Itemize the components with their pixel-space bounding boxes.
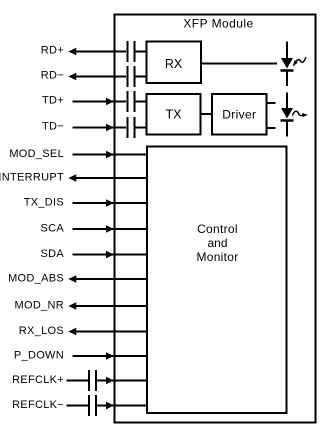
capacitor C2 (RD- AC coupling) — [128, 66, 147, 87]
capacitor C3 (TD+ AC coupling) — [128, 91, 147, 112]
svg-text:REFCLK+: REFCLK+ — [12, 374, 64, 386]
node TX_DIS : input wire with arrow — [24, 197, 147, 209]
svg-text:TD−: TD− — [42, 121, 64, 133]
svg-text:Control: Control — [197, 222, 238, 236]
node P_DOWN : input wire with arrow — [14, 350, 147, 362]
wire TX to Driver — [201, 113, 213, 115]
node TD+ : input wire with arrow — [42, 95, 126, 107]
TX block — [147, 94, 201, 135]
capacitor C1 (RD+ AC coupling) — [128, 41, 147, 62]
Driver block — [212, 94, 267, 135]
laser diode D2 (transmitter) — [281, 93, 294, 137]
Control and Monitor block — [147, 147, 287, 414]
svg-text:TX: TX — [166, 108, 183, 122]
node TD- : input wire with arrow — [42, 121, 126, 133]
photodiode D1 (receiver) — [281, 42, 294, 87]
wire RX output to photodiode — [201, 63, 277, 65]
capacitor C6 (REFCLK- coupling) — [89, 395, 96, 416]
node REFCLK- : input wire — [12, 399, 88, 411]
node RD- : output wire with arrow — [41, 70, 126, 82]
XFP Module enclosure box — [115, 15, 316, 423]
node MOD_ABS : output wire with arrow — [8, 273, 147, 285]
svg-text:REFCLK−: REFCLK− — [12, 399, 64, 411]
optical output arrow (light out of laser) — [293, 111, 308, 117]
svg-text:XFP Module: XFP Module — [183, 17, 253, 31]
optical input arrow (light into photodiode) — [293, 57, 306, 67]
svg-text:SDA: SDA — [40, 248, 64, 260]
node RX_LOS : output wire with arrow — [19, 325, 147, 337]
svg-text:Monitor: Monitor — [196, 250, 238, 264]
wire Driver output stub bottom — [267, 127, 276, 129]
node REFCLK+ : input wire — [12, 374, 88, 386]
svg-text:TX_DIS: TX_DIS — [24, 197, 64, 209]
svg-text:INTERRUPT: INTERRUPT — [0, 172, 64, 184]
svg-text:Driver: Driver — [222, 108, 256, 122]
svg-text:RD+: RD+ — [41, 45, 64, 57]
svg-text:RX_LOS: RX_LOS — [19, 325, 64, 337]
svg-text:RD−: RD− — [41, 70, 64, 82]
svg-text:TD+: TD+ — [42, 95, 64, 107]
svg-text:MOD_NR: MOD_NR — [15, 300, 64, 312]
node MOD_SEL : input wire with arrow — [9, 148, 147, 160]
wire REFCLK- into module with arrow — [97, 402, 147, 410]
svg-text:P_DOWN: P_DOWN — [14, 350, 64, 362]
node RD+ : output wire with arrow — [41, 45, 126, 57]
wire REFCLK+ into module with arrow — [97, 377, 147, 384]
node INTERRUPT : output wire with arrow — [0, 172, 147, 184]
node MOD_NR : output wire with arrow — [15, 300, 147, 312]
svg-text:and: and — [207, 236, 227, 250]
svg-text:MOD_ABS: MOD_ABS — [8, 273, 64, 285]
node SDA : input wire with arrow — [40, 248, 147, 260]
RX block — [147, 42, 202, 84]
svg-text:RX: RX — [165, 57, 183, 71]
svg-text:SCA: SCA — [40, 223, 64, 235]
node SCA : input wire with arrow — [40, 223, 147, 235]
svg-text:MOD_SEL: MOD_SEL — [9, 148, 64, 160]
wire Driver output stub top — [267, 102, 276, 104]
capacitor C4 (TD- AC coupling) — [128, 117, 147, 138]
capacitor C5 (REFCLK+ coupling) — [89, 370, 96, 391]
